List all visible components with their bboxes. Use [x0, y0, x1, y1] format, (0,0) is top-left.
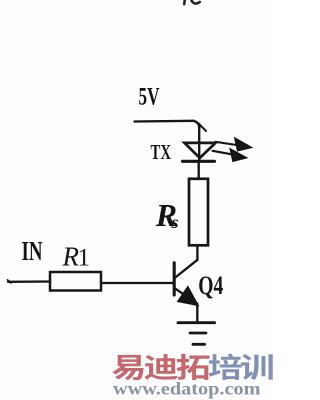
LED emission arrow 2 — [213, 151, 232, 154]
ground bar 1 — [178, 321, 215, 324]
transistor Q4 collector — [175, 260, 197, 278]
resistor R1 body — [50, 272, 101, 291]
svg-text:5V: 5V — [139, 82, 160, 111]
wire input start tick — [8, 280, 12, 283]
wire base — [102, 282, 175, 284]
wire 5V bend — [194, 121, 200, 128]
wire Rs to collector — [196, 246, 198, 261]
LED cathode bar — [183, 160, 215, 163]
LED TX diode triangle — [183, 143, 216, 161]
LED emission arrow 1 — [213, 138, 252, 161]
svg-text:www.edatop.com: www.edatop.com — [113, 379, 261, 399]
resistor Rs body — [189, 179, 208, 246]
top clipped text fragment — [184, 0, 200, 4]
svg-text:IN: IN — [22, 236, 43, 266]
wire input — [8, 280, 50, 283]
transistor Q4 emitter — [176, 289, 197, 304]
svg-text:Q4: Q4 — [198, 271, 223, 300]
wire LED cathode to Rs — [198, 162, 200, 180]
svg-text:1: 1 — [78, 245, 91, 272]
wire emitter to ground — [196, 304, 198, 323]
svg-text:TX: TX — [151, 140, 172, 164]
wire bend tick — [199, 124, 206, 132]
wire to LED anode — [198, 124, 200, 161]
ground bar 2 — [190, 332, 206, 335]
svg-text:s: s — [171, 212, 179, 232]
transistor Q4 emitter arrow — [178, 287, 197, 305]
watermark logo text — [112, 354, 272, 381]
ground bar 3 — [193, 343, 205, 346]
transistor Q4 base bar — [173, 263, 176, 295]
wire 5V horizontal — [135, 120, 194, 123]
